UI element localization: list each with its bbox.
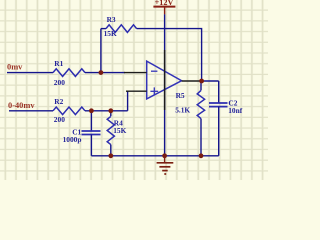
- capacitor C1: [82, 131, 101, 135]
- svg-text:0mv: 0mv: [7, 63, 23, 72]
- junction R4 top: [108, 108, 113, 113]
- capacitor C2 lead top: [218, 81, 220, 103]
- resistor R5: [197, 90, 204, 118]
- op-amp minus symbol: [151, 70, 157, 72]
- wire input row2 to R2: [9, 110, 53, 112]
- svg-text:15K: 15K: [104, 29, 117, 38]
- wire R3 to feedback corner: [137, 29, 202, 81]
- svg-text:200: 200: [54, 78, 65, 87]
- wire input row1 to R1: [7, 72, 53, 74]
- wire output node to C2: [202, 80, 219, 82]
- pin inverting input: [124, 72, 147, 74]
- op-amp U1 triangle: [147, 61, 182, 99]
- pin power vertical: [164, 50, 166, 110]
- svg-text:R5: R5: [176, 91, 185, 100]
- svg-text:R2: R2: [54, 97, 63, 106]
- svg-text:1000p: 1000p: [63, 135, 82, 144]
- wire +12V rail down through opamp to ground rail: [164, 14, 166, 155]
- resistor R3: [106, 25, 137, 33]
- wire R2 to jog corner: [85, 110, 128, 112]
- resistor R5 lead bottom: [200, 119, 202, 156]
- power symbol +12V: [153, 7, 175, 15]
- svg-text:+12V: +12V: [155, 0, 174, 7]
- junction R5 bottom: [199, 153, 204, 158]
- resistor R5 lead top: [200, 81, 202, 90]
- wire ground rail: [91, 155, 218, 157]
- resistor R1: [53, 69, 85, 77]
- ground: [157, 156, 174, 174]
- svg-text:200: 200: [54, 115, 65, 124]
- svg-text:R3: R3: [107, 15, 116, 24]
- op-amp plus symbol: [150, 87, 158, 95]
- junction ground node: [162, 153, 167, 158]
- junction node A R1/R3: [99, 70, 104, 75]
- capacitor C2: [209, 103, 228, 107]
- svg-text:10nf: 10nf: [228, 106, 243, 115]
- pin output: [182, 80, 202, 82]
- svg-text:15K: 15K: [113, 126, 126, 135]
- wire node A up to R3: [100, 29, 102, 73]
- wire R3 left lead: [101, 28, 106, 30]
- capacitor C1 lead bottom: [90, 135, 92, 156]
- svg-text:5.1K: 5.1K: [175, 106, 190, 115]
- junction R4 bottom: [108, 153, 113, 158]
- capacitor C2 lead bottom: [218, 107, 220, 156]
- resistor R4: [107, 116, 114, 144]
- svg-text:0-40mv: 0-40mv: [8, 101, 35, 110]
- resistor R4 lead top: [110, 111, 112, 116]
- svg-text:R1: R1: [54, 59, 63, 68]
- wire jog up to noninverting input: [127, 91, 129, 111]
- resistor R2: [53, 107, 85, 115]
- pin noninverting input: [126, 90, 147, 92]
- wire R1 to opamp inverting input: [85, 72, 125, 74]
- junction output node: [199, 79, 204, 84]
- junction R2/C1: [89, 108, 94, 113]
- capacitor C1 lead top: [90, 111, 92, 131]
- resistor R4 lead bottom: [110, 145, 112, 156]
